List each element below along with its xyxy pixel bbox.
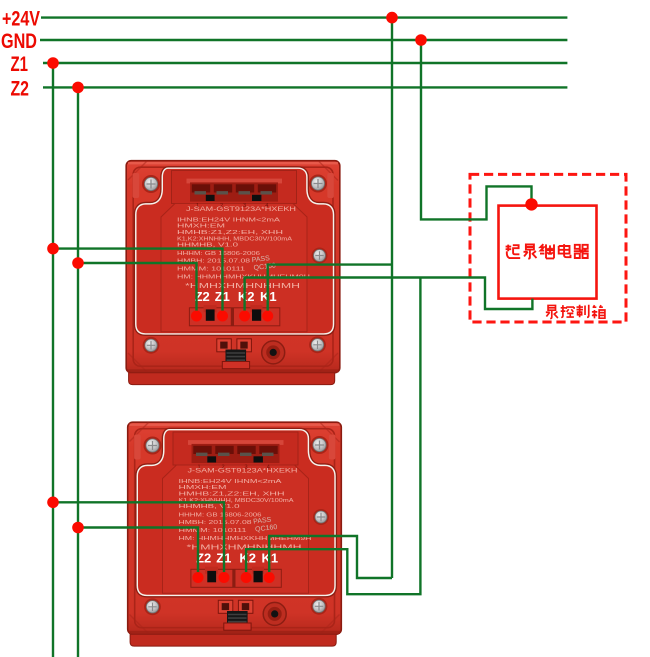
- svg-text:+24V: +24V: [2, 7, 40, 30]
- wire: +24V drop to K1 contacts: [391, 18, 393, 578]
- wire: B2 K2 tie to K2 line: [246, 278, 420, 595]
- svg-text:GND: GND: [1, 30, 37, 53]
- svg-text:Z1: Z1: [11, 53, 29, 76]
- hydrant button B1: [126, 161, 340, 385]
- wire: B1 K2 to relay coil: [245, 278, 533, 317]
- pump control box (dashed enclosure): [470, 174, 626, 322]
- junction dot Z1 bus: [47, 57, 59, 69]
- wire: B2 K1 tie to +24V drop: [269, 536, 392, 578]
- wire: GND bus: [40, 39, 567, 41]
- terminal dot B1 K1: [262, 311, 273, 322]
- terminal dot B2 K2: [241, 572, 252, 583]
- junction dot B2 Z2 tap: [72, 522, 84, 534]
- pump-start relay box U1: [499, 206, 597, 299]
- junction dot Z2 bus: [72, 82, 84, 94]
- terminal dot B2 Z2: [193, 572, 204, 583]
- junction dot B2 Z1 tap: [47, 497, 59, 509]
- wire: B1 Z2 branch: [78, 263, 197, 316]
- junction dot B1 Z1 tap: [47, 243, 59, 255]
- wire: B2 Z1 branch: [53, 502, 224, 577]
- junction dot +24V: [386, 12, 398, 24]
- wire: +24V bus: [41, 16, 567, 18]
- terminal dot B1 Z1: [217, 311, 228, 322]
- terminal dot B1 Z2: [191, 311, 202, 322]
- hydrant button B2: [128, 422, 342, 646]
- relay label 起泵继电器: [506, 244, 589, 259]
- enclosure label 泵控制箱: [546, 305, 605, 319]
- svg-text:Z2: Z2: [11, 78, 30, 101]
- wire: GND drop into pump box to relay: [421, 40, 532, 219]
- wire: Z2 riser: [77, 87, 79, 657]
- wire: B2 Z2 branch: [78, 528, 198, 578]
- wire: B1 K1 to +24V drop: [268, 265, 392, 316]
- wire: Z1 bus: [43, 62, 567, 64]
- terminal dot B2 K1: [264, 572, 275, 583]
- terminal dot B2 Z1: [219, 572, 230, 583]
- wire: Z2 bus: [43, 86, 567, 88]
- terminal dot B1 K2: [239, 311, 250, 322]
- junction dot GND: [415, 34, 427, 46]
- wire: B1 Z1 branch: [53, 249, 223, 316]
- junction dot relay input: [525, 198, 537, 210]
- junction dot B1 Z2 tap: [72, 257, 84, 269]
- wire: Z1 riser: [52, 63, 54, 657]
